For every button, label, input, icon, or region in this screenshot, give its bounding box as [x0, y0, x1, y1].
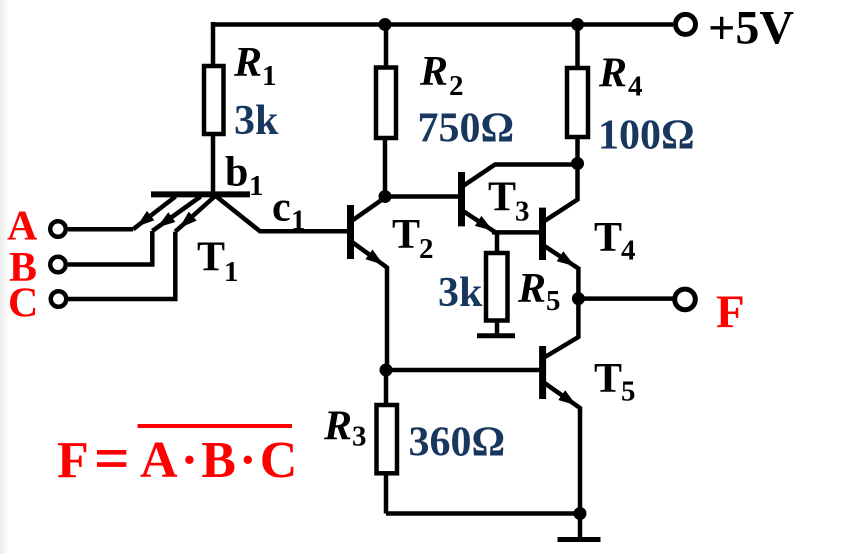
transistor T4 base bar [539, 208, 546, 260]
svg-text:b: b [225, 149, 248, 195]
junction node T3 collector / R4 [571, 157, 584, 170]
wire node F to terminal [578, 296, 673, 301]
svg-text:2: 2 [449, 70, 464, 102]
svg-text:T: T [488, 175, 516, 221]
terminal F [675, 289, 696, 310]
wire R3 bottom lead [384, 473, 389, 513]
transistor T4 emitter arrow [557, 251, 575, 266]
svg-text:4: 4 [621, 235, 636, 267]
wire T3 collector [463, 165, 578, 187]
svg-text:T: T [594, 215, 622, 261]
svg-text:F: F [716, 286, 745, 338]
svg-text:C: C [8, 281, 38, 327]
transistor T2 base bar [347, 205, 354, 259]
transistor T1 multi-emitter base bar [151, 191, 250, 197]
terminal A [50, 221, 66, 237]
wire node B2 to T3 base [385, 194, 459, 199]
svg-text:3: 3 [515, 196, 530, 228]
formula overline [138, 424, 292, 428]
wire R1 top lead [211, 22, 216, 66]
svg-text:R: R [323, 404, 352, 450]
svg-text:R: R [233, 40, 262, 86]
terminal C [51, 291, 67, 307]
wire R5 top lead [495, 232, 500, 253]
svg-text:T: T [197, 235, 225, 281]
svg-text:4: 4 [628, 71, 643, 103]
resistor R2 [376, 68, 396, 139]
svg-text:1: 1 [224, 256, 239, 288]
svg-text:A·B·C: A·B·C [140, 432, 300, 489]
svg-text:3k: 3k [438, 270, 483, 316]
svg-text:A: A [7, 204, 38, 250]
junction node T2 emitter / R3 / T5 base [380, 364, 393, 377]
wire +5V power rail [213, 22, 673, 27]
wire R1 bottom lead to T1 base [211, 134, 216, 194]
wire R2 bottom lead [383, 138, 388, 197]
svg-text:T: T [392, 212, 420, 258]
wire T2 collector to node [353, 197, 387, 221]
svg-text:1: 1 [249, 170, 264, 202]
svg-text:3: 3 [352, 421, 367, 453]
wire node F down to T5 collector [545, 299, 578, 357]
wire T4 emitter to node F [545, 246, 579, 299]
svg-text:R: R [598, 51, 627, 97]
wire R3 top lead [384, 370, 389, 405]
junction node on rail above R4 [571, 18, 584, 31]
resistor R5 [486, 253, 508, 321]
transistor T1 emitter 2 (input B) [152, 197, 200, 232]
junction node bottom ground [574, 507, 587, 520]
svg-text:360Ω: 360Ω [409, 420, 506, 466]
terminal +5V [676, 14, 696, 34]
resistor R4 [567, 68, 588, 137]
junction node output F [572, 292, 585, 305]
transistor T5 base bar [539, 346, 546, 399]
svg-text:5: 5 [621, 376, 636, 408]
wire input C lead [68, 232, 175, 299]
left page edge shading [0, 0, 9, 554]
wire T5 emitter down [545, 383, 581, 514]
wire T3 emitter [463, 211, 497, 233]
wire c1 collector of T1 to T2 base [215, 195, 349, 231]
wire R4 bottom lead [575, 137, 580, 164]
wire ground stub [578, 514, 583, 538]
transistor T3 base bar [458, 172, 465, 226]
terminal B [50, 257, 66, 273]
junction node T2 collector / R2 [379, 190, 392, 203]
wire T2 emitter node to T5 base [386, 368, 540, 373]
transistor T3 emitter arrow [475, 216, 493, 231]
wire T2 emitter down [352, 242, 387, 370]
transistor T1 emitter 3 (input C) [175, 197, 214, 232]
svg-text:F: F [57, 432, 89, 489]
resistor R1 [204, 66, 224, 134]
svg-text:100Ω: 100Ω [598, 112, 695, 158]
junction node on rail above R2 [379, 18, 392, 31]
wire R2 top lead [384, 25, 389, 68]
svg-text:R: R [517, 266, 546, 312]
wire R4 top lead [575, 25, 580, 69]
ground at bottom [558, 537, 601, 542]
svg-text:c: c [272, 185, 291, 231]
wire input B lead [68, 231, 152, 265]
svg-text:R: R [419, 49, 448, 95]
transistor T5 emitter arrow [558, 390, 576, 405]
resistor R3 [377, 405, 398, 473]
svg-text:1: 1 [262, 60, 277, 92]
wire T4 collector [545, 164, 578, 222]
wire T3 emitter to T4 base [492, 230, 540, 235]
transistor T2 emitter arrow [365, 250, 383, 265]
wire bottom rail to ground node [386, 511, 580, 516]
transistor T1 emitter 1 (input A) [133, 197, 176, 230]
svg-text:3k: 3k [234, 98, 279, 144]
svg-text:5: 5 [546, 285, 561, 317]
wire R5 bottom lead [495, 321, 500, 335]
svg-text:T: T [594, 356, 622, 402]
svg-text:+5V: +5V [708, 2, 794, 55]
svg-text:750Ω: 750Ω [418, 106, 515, 152]
svg-text:1: 1 [291, 205, 306, 237]
svg-text:2: 2 [419, 233, 434, 265]
wire input A lead [68, 227, 133, 232]
ground under R5 [477, 333, 515, 338]
